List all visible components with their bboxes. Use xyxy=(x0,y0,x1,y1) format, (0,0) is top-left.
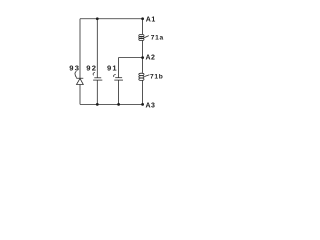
svg-text:71b: 71b xyxy=(150,74,163,81)
svg-text:A1: A1 xyxy=(146,17,156,24)
svg-text:93: 93 xyxy=(69,63,80,72)
svg-text:A3: A3 xyxy=(146,103,156,110)
svg-text:92: 92 xyxy=(86,63,97,72)
svg-text:91: 91 xyxy=(107,64,118,73)
svg-text:A2: A2 xyxy=(146,55,156,62)
svg-text:71a: 71a xyxy=(151,34,164,41)
